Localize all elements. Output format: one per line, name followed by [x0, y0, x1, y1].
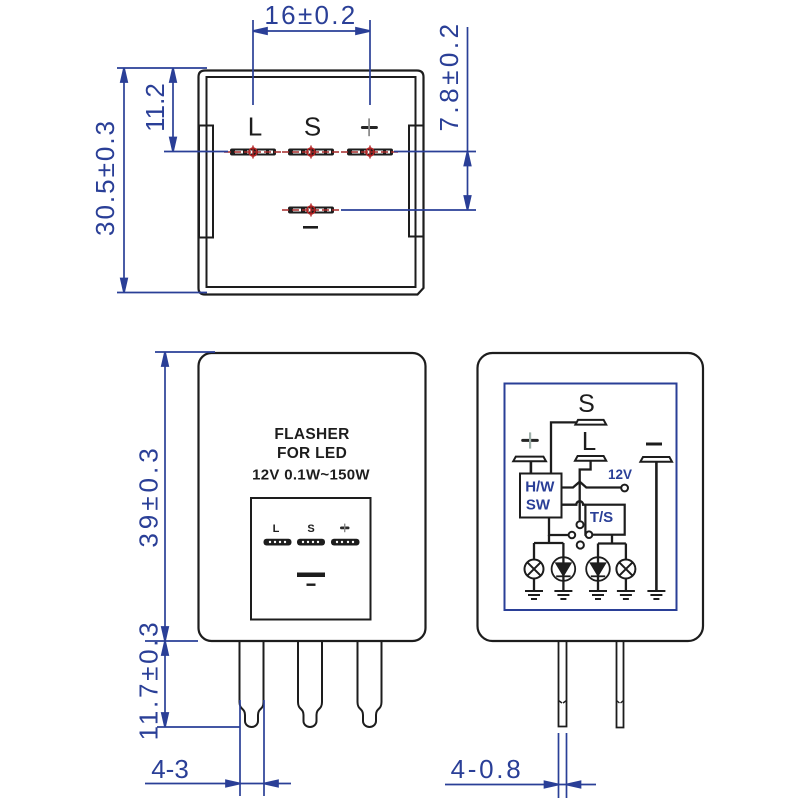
pin label - (minus): [303, 226, 318, 229]
terminal blade L: [575, 456, 606, 461]
wire H/W SW to left contact and lamp bus: [549, 518, 568, 536]
right side latch tab: [409, 126, 424, 237]
dimension 11.7±0.3 lines: [145, 641, 240, 727]
lamp right (bulb symbol): [616, 560, 635, 579]
terminal blade S: [575, 420, 606, 425]
svg-text:S: S: [578, 390, 595, 418]
ground symbol 2: [554, 591, 572, 599]
left side latch tab: [199, 126, 213, 238]
terminal label - (minus): [646, 443, 662, 446]
wire L to switch node: [580, 461, 591, 521]
svg-text:FLASHER: FLASHER: [274, 426, 349, 443]
dimension 7.8±0.2 lines: [341, 27, 476, 210]
pinout slot - (minus bar): [297, 573, 325, 578]
wire - terminal to ground: [655, 462, 658, 591]
relay case outer shell (top view): [199, 71, 424, 295]
lamp/LED ground stems: [534, 579, 626, 592]
svg-text:T/S: T/S: [590, 509, 613, 526]
wire H/W SW to T/S: [562, 501, 586, 505]
ground symbol 5 (minus rail): [647, 591, 665, 599]
svg-text:12V 0.1W~150W: 12V 0.1W~150W: [252, 467, 370, 484]
svg-text:4-3: 4-3: [151, 754, 189, 784]
pinout slot +: [331, 539, 360, 546]
dimension 39±0.3 lines: [155, 352, 215, 641]
pin slot +: [341, 146, 399, 159]
terminal blade +: [513, 457, 546, 462]
pin 3 (front view blade): [358, 641, 382, 727]
lamp left (bulb symbol): [525, 560, 544, 579]
LED 1 (diode symbol): [552, 557, 576, 581]
ground symbol 3: [589, 591, 607, 599]
dimension 30.5±0.3 lines: [117, 68, 207, 293]
svg-text:L: L: [582, 426, 596, 456]
pin label +: [361, 126, 378, 129]
svg-text:FOR LED: FOR LED: [277, 445, 347, 462]
pin A (side view): [559, 641, 567, 727]
svg-text:30.5±0.3: 30.5±0.3: [90, 119, 120, 236]
pin 2 (front view blade): [298, 641, 322, 727]
pinout slot S: [297, 539, 325, 546]
T/S box: [585, 505, 624, 535]
LED 2 (diode symbol): [586, 557, 610, 581]
dimension 16±0.2 lines: [253, 20, 370, 105]
relay case inner wall (top view): [207, 77, 416, 287]
svg-text:SW: SW: [526, 497, 551, 514]
ground symbol 4: [617, 591, 635, 599]
relay body (side view): [478, 353, 704, 641]
pinout label - (minus): [307, 584, 316, 586]
relay body (front view): [199, 353, 426, 641]
wire S to H/W SW: [551, 422, 576, 473]
H/W SW box: [520, 474, 562, 518]
wire T/S to right lamp bus: [598, 535, 626, 581]
dimension 11.2 lines: [164, 68, 228, 152]
pin 1 (front view blade): [240, 641, 264, 727]
svg-text:S: S: [304, 112, 321, 142]
svg-text:12V: 12V: [608, 467, 632, 482]
dimension 4-0.8 lines: [445, 733, 596, 798]
pin B (side view): [617, 641, 624, 728]
pin slot - (minus): [282, 204, 340, 217]
relay contact circles: [577, 521, 584, 528]
pinout label +: [340, 527, 350, 530]
svg-text:16±0.2: 16±0.2: [264, 0, 357, 30]
svg-text:11.2: 11.2: [140, 83, 170, 132]
svg-text:11.7±0.3: 11.7±0.3: [134, 620, 164, 741]
terminal blade -: [640, 457, 672, 462]
schematic frame: [505, 384, 677, 611]
svg-text:L: L: [248, 112, 262, 142]
pin slot L: [224, 146, 282, 159]
svg-text:39±0.3: 39±0.3: [134, 444, 164, 547]
pinout slot L: [264, 539, 292, 546]
svg-text:L: L: [273, 523, 280, 535]
svg-text:4-0.8: 4-0.8: [451, 754, 524, 784]
12V contact wire and terminal: [562, 482, 622, 488]
svg-text:H/W: H/W: [525, 479, 555, 496]
pinout box: [251, 498, 371, 620]
wire + to H/W SW: [530, 461, 533, 473]
dimension 4-3 lines: [145, 700, 291, 796]
pin slot S: [282, 146, 340, 159]
ground symbol 1: [525, 591, 543, 599]
svg-text:S: S: [307, 523, 314, 535]
svg-text:7.8±0.2: 7.8±0.2: [434, 20, 464, 131]
terminal label +: [521, 439, 539, 442]
